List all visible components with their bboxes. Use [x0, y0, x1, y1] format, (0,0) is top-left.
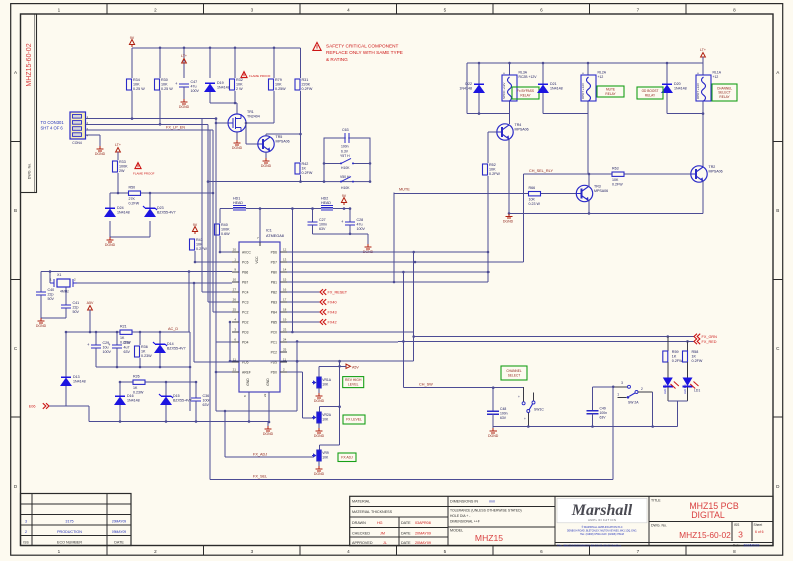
svg-text:4: 4 [347, 7, 350, 12]
svg-text:DIGITAL: DIGITAL [691, 510, 725, 520]
svg-text:5: 5 [444, 7, 447, 12]
svg-text:VCC: VCC [255, 256, 259, 264]
label box MUTE RELAY [597, 86, 624, 97]
svg-text:2: 2 [154, 549, 157, 554]
svg-text:TEL: (01908) 375411 FAX: (019: TEL: (01908) 375411 FAX: (01908) 376118 [580, 533, 625, 536]
switch block C63 [323, 128, 372, 190]
svg-text:PC4: PC4 [242, 290, 249, 294]
svg-text:2W: 2W [119, 169, 125, 173]
svg-text:FLAME PROOF: FLAME PROOF [133, 172, 155, 176]
svg-text:IC1: IC1 [266, 229, 272, 233]
svg-text:R66: R66 [529, 186, 536, 190]
wire C27 C28 ground bus [313, 225, 369, 244]
svg-text:25: 25 [283, 348, 287, 352]
ground DGND [363, 244, 374, 254]
label box OD BOOST RELAY [637, 87, 663, 99]
svg-text:TO CON301: TO CON301 [41, 120, 65, 125]
svg-text:DWG. No.: DWG. No. [28, 163, 32, 179]
resistor R36 [135, 345, 153, 358]
warning triangle [241, 72, 247, 78]
svg-text:C47: C47 [191, 80, 198, 84]
svg-text:63V: 63V [203, 403, 210, 407]
svg-text:1K: 1K [302, 167, 307, 171]
svg-text:50V: 50V [48, 297, 55, 301]
svg-text:+: + [524, 417, 526, 421]
transistor TR2 [691, 165, 723, 182]
svg-text:R33: R33 [119, 160, 126, 164]
wire relay top bus [467, 62, 703, 65]
resistor R63 [612, 167, 624, 187]
wire VR1A ground [318, 388, 320, 393]
wire TR1 drain up [236, 103, 238, 114]
svg-text:ECO NUMBER: ECO NUMBER [57, 540, 82, 544]
svg-text:CH_SEL_RLY: CH_SEL_RLY [529, 169, 553, 173]
svg-text:R59: R59 [672, 350, 679, 354]
svg-text:12: 12 [283, 248, 287, 252]
svg-text:1N4148: 1N4148 [674, 87, 687, 91]
svg-text:7: 7 [637, 7, 640, 12]
wire VR2A left [229, 321, 313, 418]
svg-text:AVCC: AVCC [242, 250, 252, 254]
wire A5V feed VR1A [319, 360, 359, 377]
svg-text:TN2404: TN2404 [247, 114, 260, 118]
crystal X1 [50, 272, 77, 294]
wire HD2 node to pin23 [291, 209, 294, 334]
svg-text:FX_SEL: FX_SEL [253, 475, 267, 479]
svg-text:100n: 100n [341, 145, 349, 149]
svg-text:DGND: DGND [36, 324, 47, 328]
junction dots top bus [159, 47, 276, 50]
title block table [350, 496, 773, 545]
svg-text:2: 2 [641, 387, 643, 391]
svg-text:100n: 100n [203, 399, 211, 403]
wire TR4 base R52 [488, 132, 497, 163]
svg-text:FX_GRN: FX_GRN [702, 335, 718, 339]
svg-text:R32: R32 [236, 78, 243, 82]
wire R79 to TR5 base node [245, 91, 274, 144]
svg-text:TOLERANCE (UNLESS OTHERWISE ST: TOLERANCE (UNLESS OTHERWISE STATED) [450, 509, 522, 513]
potentiometer VR9 [312, 450, 329, 461]
svg-text:MPSA06: MPSA06 [515, 127, 529, 131]
svg-text:ISS: ISS [23, 540, 29, 544]
title block left texts [352, 500, 431, 546]
diode D24 [104, 206, 130, 217]
svg-text:0.2FW: 0.2FW [302, 87, 313, 91]
svg-text:LT+: LT+ [115, 143, 121, 147]
svg-text:A5V: A5V [352, 365, 359, 369]
relay pair 3 channel select [667, 63, 704, 167]
svg-text:RC2B +12V: RC2B +12V [519, 75, 538, 79]
wire pin23 row [287, 331, 414, 333]
svg-text:FX_LP_EN: FX_LP_EN [166, 125, 185, 129]
relay pair 2 mute [543, 63, 588, 114]
svg-text:PC3: PC3 [242, 300, 249, 304]
svg-text:ISS: ISS [734, 523, 740, 527]
svg-text:D13: D13 [73, 375, 80, 379]
svg-text:AREF: AREF [242, 370, 251, 374]
svg-text:FLAME PROOF: FLAME PROOF [249, 74, 271, 78]
capacitor C49 [587, 387, 608, 427]
ground DGND [105, 237, 116, 247]
diode D14 branch [159, 332, 161, 344]
relay coil RL2A [581, 71, 607, 102]
capacitor C29 [87, 341, 111, 354]
svg-text:H10K: H10K [341, 166, 350, 170]
wire R43 bottom to pin1 [194, 251, 232, 263]
svg-text:JM: JM [380, 531, 385, 535]
svg-text:FX_RESET: FX_RESET [328, 290, 348, 294]
resistor R33 [113, 160, 129, 173]
svg-text:RELAY: RELAY [605, 92, 616, 96]
svg-text:TR2: TR2 [709, 165, 716, 169]
IC1 ground pins [243, 392, 270, 426]
svg-text:D24: D24 [117, 206, 124, 210]
Marshall logo [557, 498, 647, 547]
wire CON4 pin1 [86, 91, 217, 120]
IC1 right pins [271, 248, 287, 375]
resistor R50 [129, 186, 141, 206]
label box FX LEVEL [343, 415, 365, 424]
wire CH_SW [403, 382, 523, 389]
resistor R59 LED branch [667, 337, 669, 352]
svg-text:R63: R63 [612, 167, 619, 171]
svg-text:R58: R58 [692, 350, 699, 354]
svg-text:4MHz: 4MHz [60, 290, 69, 294]
svg-text:MHZ15-60-02: MHZ15-60-02 [26, 43, 33, 86]
wire VR9 ground [318, 461, 320, 466]
svg-text:1K: 1K [672, 355, 677, 359]
wire TR2 emitter [702, 181, 704, 213]
svg-text:R36: R36 [141, 345, 148, 349]
wire LED join [668, 401, 688, 427]
diode D14 [153, 342, 186, 353]
svg-text:10K: 10K [161, 83, 168, 87]
svg-text:HEAD: HEAD [321, 201, 331, 205]
svg-text:C36: C36 [203, 394, 210, 398]
svg-text:1K: 1K [133, 386, 138, 390]
potentiometer VR2A [312, 412, 332, 423]
svg-text:HG: HG [377, 521, 383, 525]
svg-text:0.23 W: 0.23 W [529, 202, 541, 206]
wire HD1 row [220, 207, 321, 223]
wire crystal row pin10 [77, 282, 232, 285]
svg-text:0.2FW: 0.2FW [692, 359, 703, 363]
svg-text:HD2: HD2 [321, 197, 328, 201]
svg-text:1N4148: 1N4148 [127, 399, 140, 403]
svg-text:25: 25 [233, 308, 237, 312]
title block dimensions texts [450, 500, 522, 544]
svg-text:47u: 47u [191, 85, 197, 89]
ground DGND [95, 146, 106, 156]
svg-text:10: 10 [233, 278, 237, 282]
svg-text:+12: +12 [598, 75, 604, 79]
svg-text:0.23W: 0.23W [133, 391, 144, 395]
wire TR5 collector [266, 134, 301, 136]
svg-text:14: 14 [283, 268, 287, 272]
svg-text:PRODUCTION: PRODUCTION [57, 530, 82, 534]
svg-text:C41: C41 [73, 301, 80, 305]
diode D19 [204, 81, 230, 92]
svg-text:100n: 100n [319, 223, 327, 227]
svg-text:0.2FW: 0.2FW [489, 172, 500, 176]
svg-text:TR5: TR5 [276, 135, 283, 139]
svg-text:R40: R40 [221, 223, 228, 227]
transistor TR4 [497, 123, 529, 140]
svg-text:TR4: TR4 [515, 123, 522, 127]
svg-text:0.6W: 0.6W [221, 232, 230, 236]
svg-text:20MAY09: 20MAY09 [112, 520, 126, 524]
wire TR1 source to ground [236, 132, 238, 140]
op-amp IC1 ATMEGA8 body [239, 229, 284, 393]
svg-text:19: 19 [283, 318, 287, 322]
wire R31 column [299, 48, 302, 162]
svg-text:100n: 100n [500, 412, 508, 416]
svg-text:PC2: PC2 [242, 310, 249, 314]
port E06 [29, 403, 49, 409]
wire vertical 403 FX_RED CH_SW [402, 272, 404, 388]
svg-text:DATE: DATE [401, 541, 411, 545]
resistor R79 [269, 78, 287, 91]
svg-text:C27: C27 [319, 218, 326, 222]
resistor R31 [295, 78, 313, 91]
svg-text:21: 21 [233, 368, 237, 372]
svg-text:VR9: VR9 [322, 451, 329, 455]
svg-text:TR1: TR1 [247, 110, 254, 114]
svg-text:PD3: PD3 [242, 330, 249, 334]
wire D19 R32 bottoms [210, 91, 237, 104]
wire D24 D23 branch [110, 192, 151, 237]
port FX_RED [694, 339, 717, 345]
svg-text:63V: 63V [500, 416, 507, 420]
header HD1 [233, 197, 246, 210]
port FX_GRN [694, 334, 717, 340]
capacitor C30 [108, 332, 130, 367]
svg-text:HD1: HD1 [233, 197, 240, 201]
svg-text:PB3: PB3 [271, 300, 277, 304]
svg-text:RELAY: RELAY [719, 95, 730, 99]
svg-text:MHZ15-60-02: MHZ15-60-02 [679, 530, 731, 540]
svg-text:0.25 W: 0.25 W [133, 87, 145, 91]
svg-text:RELAY: RELAY [645, 93, 656, 97]
svg-text:DATE: DATE [401, 531, 411, 535]
svg-text:22p: 22p [73, 306, 79, 310]
svg-text:3: 3 [251, 549, 254, 554]
port FX_RESET [320, 289, 348, 295]
warning flame proof R33 [133, 163, 155, 176]
svg-text:3: 3 [251, 7, 254, 12]
wire pin14 route [287, 271, 490, 274]
svg-text:C48: C48 [500, 407, 506, 411]
svg-text:LED GN: LED GN [663, 384, 667, 394]
svg-text:R34: R34 [133, 78, 140, 82]
svg-text:MATERIAL THICKNESS: MATERIAL THICKNESS [352, 510, 393, 514]
ground DGND [263, 426, 274, 436]
svg-text:C30: C30 [124, 341, 131, 345]
wire pin24 branch [296, 340, 299, 411]
wire pin16 FX_RESET [287, 291, 320, 293]
transistor TR4 branch [509, 114, 511, 124]
wire HD2 to 9V node [333, 207, 351, 210]
wire AC_D vertical right [189, 332, 191, 411]
svg-text:PB5: PB5 [271, 320, 277, 324]
svg-text:FX_RED: FX_RED [702, 340, 717, 344]
svg-text:10K: 10K [133, 83, 140, 87]
capacitor C28 [341, 218, 365, 231]
svg-text:D21: D21 [550, 82, 557, 86]
svg-text:DGND: DGND [314, 399, 325, 403]
svg-text:A5V: A5V [87, 301, 94, 305]
capacitor C27 [308, 218, 328, 231]
wire VR2A ground [318, 424, 320, 428]
svg-text:4u7: 4u7 [124, 346, 130, 350]
svg-text:6 of 6: 6 of 6 [755, 530, 764, 534]
svg-text:1N4148: 1N4148 [73, 380, 86, 384]
svg-text:C63: C63 [342, 128, 349, 132]
svg-text:100V: 100V [357, 227, 366, 231]
svg-text:DGND: DGND [261, 164, 272, 168]
svg-text:Y5T H: Y5T H [340, 154, 350, 158]
svg-text:1N4148: 1N4148 [117, 211, 130, 215]
diode D13 [60, 375, 86, 386]
wire FX_SEL [210, 130, 613, 479]
wire C27 C28 tops [313, 209, 351, 222]
svg-text:BZX55-4V7: BZX55-4V7 [173, 399, 192, 403]
svg-text:10K: 10K [275, 83, 282, 87]
wire TR4 emitter [508, 139, 511, 215]
port FX40 [320, 299, 337, 305]
svg-text:R52: R52 [489, 163, 496, 167]
wire TR5 emitter to ground [265, 152, 267, 158]
svg-text:LD1: LD1 [694, 389, 700, 393]
svg-text:0.25W: 0.25W [275, 87, 286, 91]
svg-text:100K: 100K [119, 165, 128, 169]
wire C47 to ground [183, 87, 185, 99]
label TO CON301 [41, 120, 65, 131]
power 9V [129, 36, 134, 47]
label box FX ADJ [338, 453, 356, 462]
svg-text:20/05/2009: 20/05/2009 [744, 543, 760, 547]
svg-text:DGND: DGND [263, 432, 274, 436]
wire R50 rail [110, 192, 214, 195]
svg-text:DWG. No.: DWG. No. [651, 524, 667, 528]
svg-text:1K: 1K [692, 355, 697, 359]
svg-text:20MAY09: 20MAY09 [415, 531, 431, 535]
resistor R34 [127, 78, 146, 91]
svg-text:R50: R50 [129, 186, 136, 190]
label box CHANNEL SELECT [501, 366, 527, 380]
wire MUTE net [394, 188, 576, 194]
svg-text:PB4: PB4 [271, 310, 277, 314]
zone row letters [14, 70, 780, 489]
resistor R26 [133, 375, 145, 395]
svg-text:SW1C: SW1C [534, 408, 544, 412]
svg-text:22p: 22p [48, 293, 54, 297]
resistor R59 [663, 350, 683, 363]
power LT+ above C47 [181, 54, 187, 63]
power LT+ relay rail [700, 48, 706, 63]
svg-text:1: 1 [58, 549, 61, 554]
svg-text:22: 22 [263, 393, 267, 397]
svg-text:A M P L I F I C A T I O N: A M P L I F I C A T I O N [588, 518, 616, 522]
svg-text:DENBIGH ROAD, BLETCHLEY, MILTO: DENBIGH ROAD, BLETCHLEY, MILTON KEYNES, … [567, 530, 637, 533]
svg-text:DGND: DGND [95, 152, 106, 156]
svg-text:E06: E06 [29, 404, 36, 408]
resistor R40 [215, 223, 231, 236]
switch SW2A [593, 381, 653, 426]
capacitor C40 [36, 288, 54, 301]
svg-text:27K: 27K [129, 197, 136, 201]
wire CON4 pin4 to ground [86, 135, 101, 146]
svg-text:DGND: DGND [105, 243, 116, 247]
diode D13 branch [65, 331, 68, 377]
svg-text:0.2FW: 0.2FW [672, 359, 683, 363]
svg-text:AC_D: AC_D [168, 327, 178, 331]
LED LD1 [683, 362, 701, 401]
svg-text:1K: 1K [120, 336, 125, 340]
warning flame proof R32 [241, 72, 271, 78]
port FX42 [320, 319, 337, 325]
ground DGND [261, 158, 272, 168]
svg-text:APPROVED: APPROVED [352, 541, 373, 545]
wire pin12 route [287, 251, 488, 254]
svg-text:15: 15 [283, 278, 287, 282]
svg-text:0.2FW: 0.2FW [129, 202, 140, 206]
wire TR1 gate [215, 122, 228, 125]
wire R40 bottom to pin20 [219, 236, 232, 253]
svg-text:100V: 100V [103, 350, 112, 354]
svg-text:10K: 10K [322, 456, 329, 460]
svg-text:LEVEL: LEVEL [348, 382, 359, 386]
svg-text:3: 3 [738, 530, 743, 540]
svg-text:HOLE DIA + -: HOLE DIA + - [450, 514, 470, 518]
svg-text:LED RD: LED RD [683, 384, 687, 394]
diode D15 [159, 394, 192, 405]
svg-text:Sheet: Sheet [754, 523, 763, 527]
transistor TR1 [228, 110, 260, 132]
svg-text:X1: X1 [57, 273, 61, 277]
LED LD2 [663, 362, 679, 401]
svg-text:BZX55-4V7: BZX55-4V7 [157, 211, 176, 215]
svg-text:6.3V: 6.3V [341, 149, 349, 153]
svg-text:CON4: CON4 [72, 141, 82, 145]
wire lower-left mid bus [96, 353, 191, 368]
wire R42 bottom [299, 175, 302, 183]
svg-text:D14: D14 [167, 342, 174, 346]
svg-text:B: B [776, 208, 779, 213]
resistor R21 [120, 325, 132, 345]
wire FX_RED [402, 340, 694, 343]
wire VCC pin7 column [257, 209, 260, 242]
svg-text:PD6: PD6 [271, 250, 278, 254]
resistor R52 [483, 163, 501, 176]
svg-text:DGND: DGND [314, 434, 325, 438]
svg-text:63V: 63V [319, 227, 326, 231]
svg-text:Marshall: Marshall [571, 502, 633, 519]
svg-text:DATE: DATE [114, 540, 124, 544]
svg-text:DPDT +12V: DPDT +12V [581, 83, 585, 99]
wire CON4 pin3 FX_LP_EN [86, 125, 214, 130]
svg-text:1: 1 [58, 7, 61, 12]
safety critical warning note [313, 42, 403, 62]
svg-text:MPSA06: MPSA06 [594, 189, 608, 193]
svg-text:JL: JL [383, 541, 387, 545]
svg-text:4: 4 [347, 549, 350, 554]
svg-text:6: 6 [540, 549, 543, 554]
svg-text:PD0: PD0 [271, 370, 278, 374]
resistor R58 [683, 350, 703, 363]
svg-text:0.23W: 0.23W [141, 354, 152, 358]
svg-text:PD2: PD2 [242, 320, 249, 324]
